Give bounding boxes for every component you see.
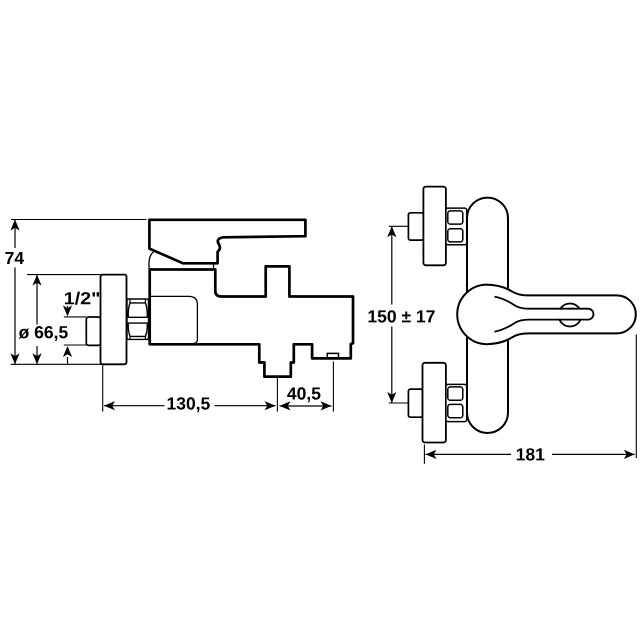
ext line 150 top [389, 225, 409, 227]
text diameter 66,5 [19, 326, 68, 341]
text 40,5 [287, 387, 320, 402]
ext line rosette top (66,5) [27, 274, 101, 276]
lever handle (side view) [149, 220, 305, 263]
top pipe stub [408, 213, 423, 240]
dim line 181 [426, 453, 635, 455]
bottom hex nut outer [446, 384, 467, 421]
leader 1/2 down [67, 306, 69, 310]
text 74 [5, 252, 24, 264]
handle blob + lever (front view) [457, 285, 636, 345]
ext lines 1/2 inch pipe [64, 316, 87, 318]
arrow 40,5 right [321, 401, 332, 410]
dim line 130,5 [104, 405, 276, 407]
hex nut (side view) outer [127, 299, 149, 339]
ext line 130,5 left [102, 366, 104, 412]
lever slot [495, 297, 594, 332]
top hex nut outer [446, 208, 467, 245]
arrow 181 left [426, 450, 437, 459]
ext line 181 right [635, 335, 637, 459]
dim line 74 [14, 220, 16, 365]
arrow 150 top [387, 226, 396, 237]
ext line handle top (74) [11, 219, 147, 221]
text 181 [517, 448, 545, 460]
arrow 40,5 left [280, 401, 291, 410]
ext line rosette bottom [11, 363, 103, 365]
arrow 130,5 right [265, 401, 276, 410]
arrow 181 right [624, 450, 635, 459]
ext line diverter center [332, 362, 334, 412]
body (side view) [150, 266, 353, 376]
slot white cover [515, 310, 592, 319]
hex nut chamfer ticks [130, 299, 145, 339]
hex nut facet barrel lower [128, 323, 147, 336]
text 150 +- 17 [369, 310, 435, 322]
wall pipe 1/2" connection (side view) [86, 317, 100, 345]
bottom hex nut facet lower [448, 404, 463, 417]
top rosette [423, 187, 446, 266]
wall rosette (side view) [101, 275, 127, 365]
ext line 181 left [423, 445, 425, 464]
ext line spout center [276, 378, 278, 412]
arrow 74 top [10, 220, 19, 231]
hex nut facet barrel upper [128, 303, 147, 317]
arrow 66,5 bottom [32, 353, 41, 364]
dim line 150 [391, 226, 393, 403]
handle pivot circle [559, 304, 582, 327]
top hex nut facet lower [448, 229, 463, 242]
text 130,5 [168, 397, 210, 412]
ext line 150 bottom [389, 402, 409, 404]
dim line 66,5 [36, 275, 38, 365]
body capsule (front view) [467, 198, 508, 433]
cartridge dome arc [149, 250, 156, 269]
leader 1/2 up [67, 357, 69, 364]
arrow 74 bottom [10, 353, 19, 364]
bottom rosette [423, 363, 446, 443]
bottom hex nut facet upper [448, 387, 463, 400]
arrow 66,5 top [32, 275, 41, 286]
diverter plug inner rect [327, 353, 338, 358]
dim line 40,5 [280, 405, 332, 407]
arrow 130,5 left [104, 401, 115, 410]
dome right edge thin vertical [213, 263, 215, 269]
arrow 150 bottom [387, 392, 396, 403]
bottom pipe stub [408, 389, 422, 417]
text 1/2" [65, 292, 99, 305]
top hex nut facet upper [448, 211, 463, 224]
body inner casting line [150, 296, 198, 343]
